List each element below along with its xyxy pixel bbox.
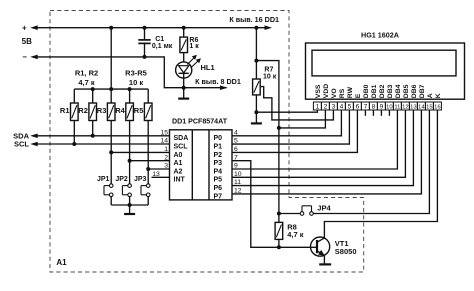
svg-text:7: 7 <box>364 103 368 110</box>
svg-text:2: 2 <box>324 103 328 110</box>
resistor R5 <box>144 103 152 121</box>
svg-text:R1: R1 <box>60 106 70 115</box>
wire collector to LCD pin16 (K) <box>324 110 437 238</box>
resistor R6 <box>180 37 188 53</box>
svg-text:3: 3 <box>332 103 336 110</box>
wire R1 bottom to SCL <box>73 121 75 145</box>
svg-text:R4: R4 <box>115 106 125 115</box>
wire R3 stub top <box>110 89 112 103</box>
svg-text:DB5: DB5 <box>403 84 410 98</box>
wire R1 stub top <box>73 89 75 103</box>
wire R7 bottom to ground <box>255 95 257 112</box>
jumper JP3 <box>141 184 150 205</box>
jumper JP2 <box>122 184 131 205</box>
wire R8 top <box>278 214 280 223</box>
svg-text:16: 16 <box>434 104 440 110</box>
jumper JP1 <box>104 184 113 205</box>
svg-text:0,1 мк: 0,1 мк <box>152 43 173 50</box>
svg-text:P4: P4 <box>214 168 223 175</box>
svg-text:12: 12 <box>402 104 408 110</box>
wire R2 stub top <box>92 89 94 103</box>
svg-text:10: 10 <box>386 104 392 110</box>
wire R3 bottom through A0 to JP1 <box>110 121 112 184</box>
node K vyv.8 DD1 arrow <box>220 85 228 90</box>
svg-text:A0: A0 <box>174 152 183 159</box>
svg-text:8: 8 <box>372 103 376 110</box>
junction dots on bus <box>91 87 95 91</box>
wire P3 to VT1 base <box>232 161 316 248</box>
DD1 right pin labels <box>214 135 223 200</box>
svg-text:VSS: VSS <box>315 84 322 98</box>
svg-text:R5: R5 <box>134 106 144 115</box>
junction dots C1 <box>143 26 147 30</box>
module A1 dashed boundary <box>50 11 364 273</box>
svg-text:P7: P7 <box>214 193 223 200</box>
resistor R3 <box>107 103 115 121</box>
svg-text:P3: P3 <box>214 160 223 167</box>
wire P1 to LCD pin 5 <box>232 110 349 144</box>
svg-text:К выв. 8 DD1: К выв. 8 DD1 <box>195 77 241 86</box>
svg-text:15: 15 <box>160 129 168 136</box>
wire P6 to LCD pin 13 <box>232 110 413 186</box>
svg-text:SCL: SCL <box>174 144 189 151</box>
svg-text:A1: A1 <box>174 160 183 167</box>
svg-text:R7: R7 <box>264 67 273 74</box>
svg-text:P6: P6 <box>214 185 223 192</box>
svg-text:JP3: JP3 <box>134 176 147 183</box>
ground under HL1 <box>183 88 185 99</box>
jumper JP4 <box>279 206 313 216</box>
svg-text:3: 3 <box>164 163 168 170</box>
svg-text:P1: P1 <box>214 144 223 151</box>
svg-text:6: 6 <box>356 103 360 110</box>
svg-text:−: − <box>22 52 27 61</box>
wire VSS pin1 to ground node <box>256 110 317 112</box>
wire R5 stub top <box>147 89 149 103</box>
node - arrow (left) <box>30 55 38 60</box>
IC DD1 PCF8574AT <box>170 130 233 200</box>
wire INT stub <box>152 176 170 178</box>
svg-text:DB6: DB6 <box>411 84 418 98</box>
wire R4 stub top <box>129 89 131 103</box>
wire P2 to LCD pin 6 <box>232 110 357 152</box>
wire DB3 stub (unconnected) <box>388 110 390 116</box>
svg-text:10 к: 10 к <box>129 78 143 87</box>
svg-text:10 к: 10 к <box>263 74 277 81</box>
wire minus rail <box>37 57 226 88</box>
ground under VT1 <box>324 263 326 264</box>
wire DB1 stub (unconnected) <box>372 110 374 116</box>
wire DB2 stub (unconnected) <box>380 110 382 116</box>
wire R8 bottom to base <box>278 239 280 247</box>
wire DB0 stub (unconnected) <box>364 110 366 116</box>
DD1 left pin labels <box>174 135 189 184</box>
resistor R7 <box>253 79 261 95</box>
label VT1 S8050 <box>335 239 357 256</box>
wire VDD pin2 to +5V branch <box>279 110 326 128</box>
resistor R1 <box>71 103 79 121</box>
svg-text:DB2: DB2 <box>379 84 386 98</box>
svg-text:14: 14 <box>160 138 168 145</box>
wire JP4 to LCD pin15 (A) <box>313 110 429 214</box>
svg-text:P2: P2 <box>214 152 223 159</box>
svg-text:P0: P0 <box>214 135 223 142</box>
DD1 right pin numbers <box>234 129 242 194</box>
svg-text:4: 4 <box>340 103 344 110</box>
svg-text:DB4: DB4 <box>395 84 402 98</box>
svg-text:4,7 к: 4,7 к <box>78 78 95 87</box>
svg-text:JP2: JP2 <box>115 176 128 183</box>
LCD pin name labels (rotated) <box>315 84 442 98</box>
svg-text:RW: RW <box>347 86 354 98</box>
resistor R8 <box>275 222 283 239</box>
svg-text:15: 15 <box>426 104 432 110</box>
wire R6 top <box>183 28 185 37</box>
LCD pin number boxes <box>313 102 441 110</box>
junction dot LED/minus <box>182 86 186 90</box>
svg-text:R3: R3 <box>97 106 107 115</box>
svg-text:5В: 5В <box>22 37 32 46</box>
svg-text:5: 5 <box>348 103 352 110</box>
wire R4 bottom through A1 to JP2 <box>129 121 131 184</box>
svg-text:R2: R2 <box>78 106 88 115</box>
svg-text:HL1: HL1 <box>201 63 215 72</box>
svg-text:К выв. 16 DD1: К выв. 16 DD1 <box>229 15 279 24</box>
svg-text:JP4: JP4 <box>317 203 331 212</box>
svg-text:1 к: 1 к <box>189 43 199 50</box>
svg-text:DB7: DB7 <box>419 84 426 98</box>
wire A0 row <box>111 151 169 153</box>
wire P5 to LCD pin 12 <box>232 110 405 177</box>
svg-text:SCL: SCL <box>14 140 29 149</box>
wire +5V feed to resistor bus <box>110 28 112 89</box>
svg-text:A: A <box>427 93 434 98</box>
wire P0 to LCD pin 4 <box>232 110 341 136</box>
svg-text:SDA: SDA <box>174 135 189 142</box>
label R8 value <box>287 222 304 239</box>
label R1,R2 value <box>75 69 98 87</box>
label R6 value <box>189 37 199 50</box>
node + arrow (left) <box>30 25 38 30</box>
svg-text:R1, R2: R1, R2 <box>75 69 98 78</box>
svg-text:C1: C1 <box>155 36 164 43</box>
label R3-R5 value <box>125 69 147 87</box>
svg-text:DB0: DB0 <box>363 84 370 98</box>
svg-text:RS: RS <box>339 88 346 98</box>
wire A2 row <box>148 168 169 170</box>
LCD HG1 1602A body <box>306 43 465 99</box>
wire +5V rail <box>37 27 264 29</box>
svg-text:11: 11 <box>394 104 400 110</box>
svg-text:DB3: DB3 <box>387 84 394 98</box>
LED HL1 <box>176 53 201 88</box>
svg-text:DD1 PCF8574AT: DD1 PCF8574AT <box>172 117 228 125</box>
wire +5V down to R7 <box>255 28 257 79</box>
svg-text:P5: P5 <box>214 177 223 184</box>
wire jumper common ground <box>111 204 148 206</box>
wire P4 to LCD pin 11 <box>232 110 397 169</box>
transistor VT1 S8050 <box>311 237 330 256</box>
wire R2 bottom to SDA <box>92 121 94 136</box>
label R7 value <box>263 67 277 81</box>
wire R5 bottom through A2 to JP3 <box>147 121 149 184</box>
svg-text:A2: A2 <box>174 168 183 175</box>
svg-text:1: 1 <box>164 146 168 153</box>
svg-text:S8050: S8050 <box>335 247 357 256</box>
svg-text:1: 1 <box>316 103 320 110</box>
svg-text:A1: A1 <box>56 258 67 267</box>
wire VO pin3 to R7 wiper <box>260 87 333 120</box>
svg-text:2: 2 <box>164 154 168 161</box>
svg-text:9: 9 <box>380 103 384 110</box>
label C1 value <box>152 36 173 50</box>
ground under R7 <box>255 112 257 123</box>
svg-text:13: 13 <box>152 171 160 178</box>
svg-text:INT: INT <box>174 177 186 184</box>
svg-text:13: 13 <box>410 104 416 110</box>
wire A1 row <box>130 160 170 162</box>
svg-text:14: 14 <box>418 104 425 110</box>
DD1 left pin numbers <box>152 129 168 178</box>
svg-text:DB1: DB1 <box>371 84 378 98</box>
svg-text:E: E <box>355 93 362 98</box>
wire resistor top bus <box>74 88 148 90</box>
svg-text:R3-R5: R3-R5 <box>125 69 147 78</box>
svg-text:VO: VO <box>331 88 338 98</box>
svg-text:JP1: JP1 <box>97 176 110 183</box>
wire emitter to ground <box>323 256 325 264</box>
resistor R2 <box>89 103 97 121</box>
capacitor C1 <box>138 28 150 57</box>
resistor R4 <box>126 103 134 121</box>
svg-text:VDD: VDD <box>323 84 330 98</box>
wire P7 to LCD pin 14 <box>232 110 421 194</box>
svg-text:4,7 к: 4,7 к <box>287 230 304 239</box>
svg-text:K: K <box>435 93 442 98</box>
node K vyv.16 DD1 arrow <box>265 25 273 30</box>
wire +5V branch (VDD/JP4/R8) <box>254 59 258 63</box>
svg-text:HG1 1602A: HG1 1602A <box>361 31 399 40</box>
svg-text:+: + <box>22 24 27 33</box>
ground under jumpers <box>129 205 131 214</box>
